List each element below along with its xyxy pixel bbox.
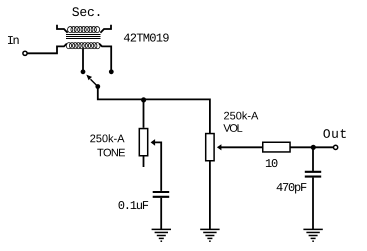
- label In: [8, 36, 19, 44]
- transformer T1 primary winding (bottom coil): [66, 43, 100, 49]
- switch SW1 pivot: [95, 84, 100, 89]
- wire C1 bottom to ground: [160, 198, 162, 230]
- wire TONE pot bottom stub: [143, 157, 145, 168]
- node Out terminal: [334, 145, 338, 149]
- wire transformer primary right lead down to switch right contact: [99, 44, 111, 70]
- wire In to transformer primary left: [27, 44, 67, 54]
- label 250k-A (TONE): [90, 134, 124, 142]
- potentiometer R2 TONE body: [139, 129, 147, 156]
- resistor R1 body: [263, 142, 290, 152]
- node junction dot (output): [311, 145, 316, 150]
- capacitor C1 plate 1: [153, 191, 170, 193]
- label 42TM019: [124, 33, 169, 41]
- wire TONE wiper to capacitor C1: [154, 142, 161, 191]
- capacitor C1 plate 2: [153, 196, 170, 198]
- label 470pF: [277, 183, 307, 194]
- node junction dot (TONE branch): [141, 97, 146, 102]
- ground GND2: [200, 229, 219, 241]
- label 0.1uF: [119, 201, 149, 209]
- ground GND1: [152, 229, 171, 241]
- wire transformer center tap down to switch left contact: [82, 49, 84, 70]
- transformer T1 secondary winding (top coil): [68, 27, 100, 33]
- capacitor C2 plate 1: [305, 171, 321, 173]
- label 10 (resistor value): [266, 159, 278, 167]
- wire secondary top-left lead: [57, 25, 68, 33]
- wire switch pivot down and right to VOL pot top: [98, 89, 210, 134]
- switch SW1 right contact: [109, 69, 114, 74]
- wire resistor R1 to Out terminal: [290, 146, 333, 148]
- wire VOL wiper to resistor R1: [221, 146, 263, 148]
- capacitor C2 plate 2: [305, 176, 321, 178]
- transformer T1 core: [66, 35, 101, 39]
- wire TONE branch down from junction: [143, 99, 145, 127]
- label Out: [323, 129, 345, 138]
- ground GND3: [303, 229, 322, 241]
- node In terminal: [23, 51, 27, 55]
- label 250k-A (VOL): [224, 111, 258, 119]
- potentiometer R3 VOL wiper arrow: [217, 144, 222, 150]
- potentiometer R2 TONE wiper arrow: [151, 139, 156, 146]
- wire junction to capacitor C2: [312, 147, 314, 171]
- label VOL: [223, 124, 242, 132]
- switch SW1 left contact: [81, 69, 86, 74]
- label TONE: [97, 149, 125, 157]
- potentiometer R3 VOL body: [206, 134, 214, 161]
- label Sec.: [72, 7, 99, 16]
- switch SW1 arm arrow: [86, 75, 98, 87]
- wire VOL pot bottom to ground: [209, 162, 211, 230]
- wire secondary top-right lead: [100, 25, 111, 33]
- wire C2 bottom to ground: [312, 178, 314, 230]
